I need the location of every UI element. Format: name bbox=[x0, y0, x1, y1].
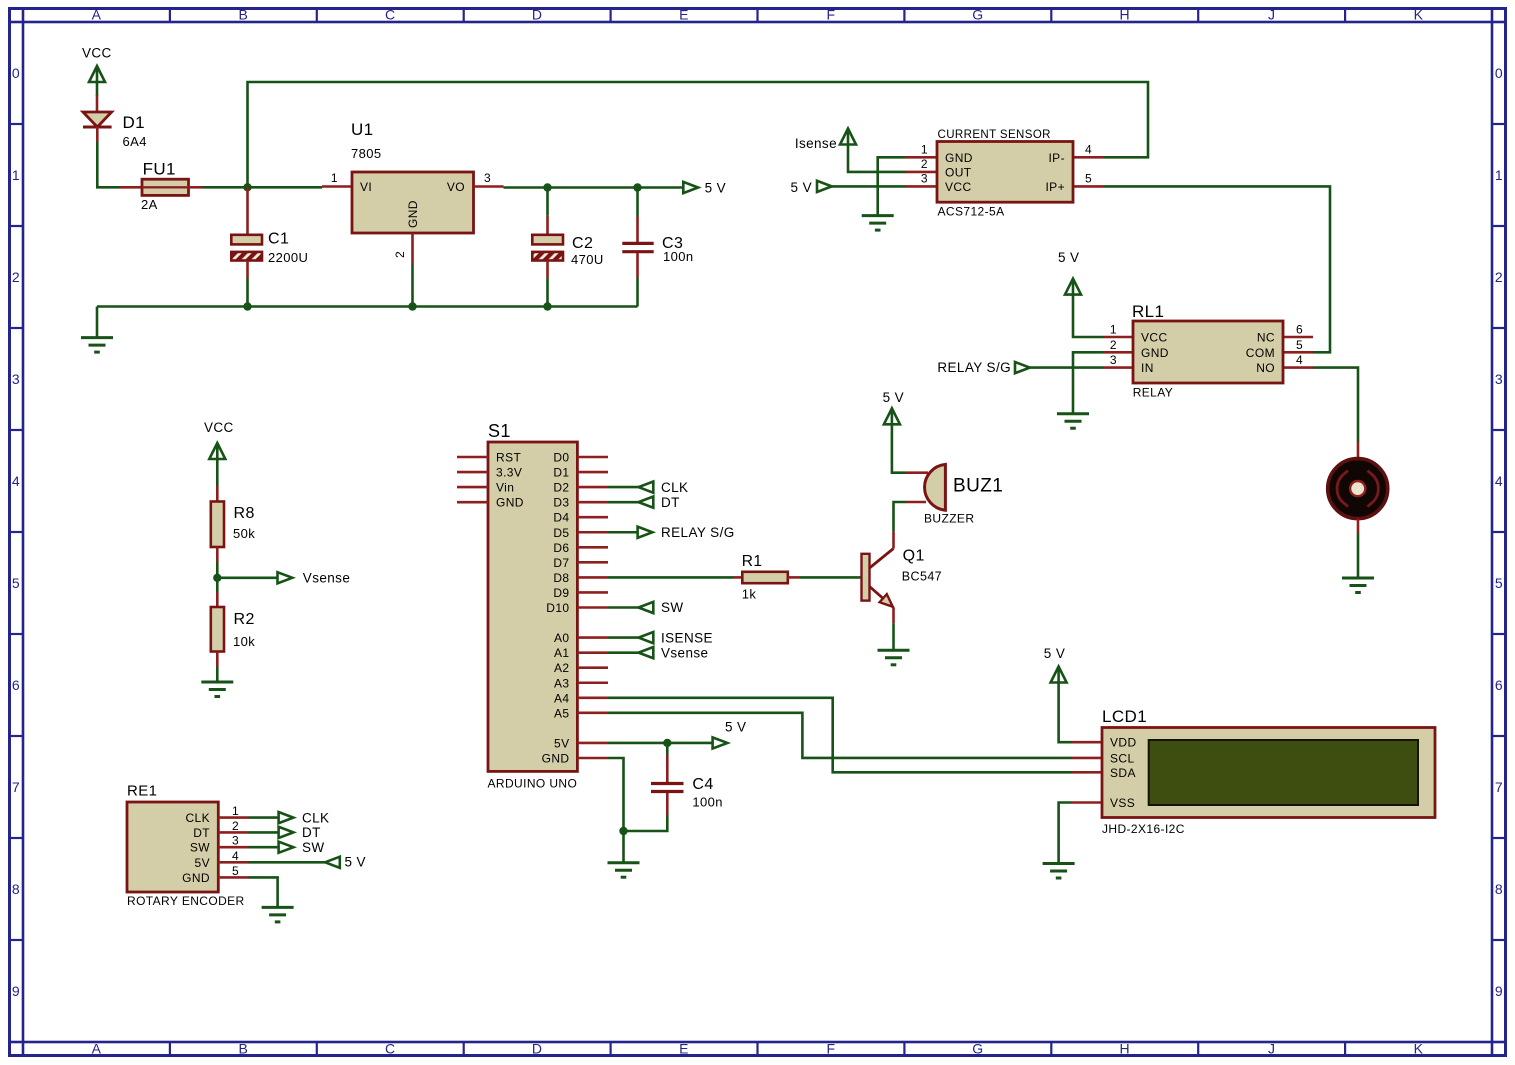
svg-text:5: 5 bbox=[1085, 172, 1092, 186]
current sensor U ACS712 bbox=[906, 156, 937, 159]
wire 5V to buzzer pin1 bbox=[892, 424, 906, 472]
svg-text:D1: D1 bbox=[553, 466, 569, 480]
wire A0 to ISENSE bbox=[608, 636, 639, 639]
svg-text:Vsense: Vsense bbox=[661, 645, 708, 660]
svg-text:5: 5 bbox=[1296, 338, 1303, 352]
wire enc 5V bbox=[249, 861, 326, 864]
svg-text:VI: VI bbox=[360, 180, 372, 194]
resistor R2 bbox=[216, 592, 219, 607]
regulator U1 7805 bbox=[322, 185, 352, 188]
svg-text:R8: R8 bbox=[234, 505, 255, 522]
svg-text:2: 2 bbox=[1110, 338, 1117, 352]
wire IP+ to relay COM bbox=[1104, 186, 1331, 352]
svg-text:E: E bbox=[679, 7, 689, 23]
svg-text:5 V: 5 V bbox=[345, 855, 366, 870]
svg-text:D1: D1 bbox=[123, 113, 146, 132]
svg-text:100n: 100n bbox=[663, 249, 694, 264]
svg-text:6A4: 6A4 bbox=[123, 134, 147, 149]
svg-text:10k: 10k bbox=[233, 634, 255, 649]
relay RL1 bbox=[1103, 336, 1133, 339]
ground symbol (Q1) bbox=[878, 649, 910, 652]
svg-text:5: 5 bbox=[232, 864, 239, 878]
svg-text:D: D bbox=[532, 1041, 543, 1057]
rotary encoder RE1 bbox=[127, 802, 218, 892]
svg-text:VCC: VCC bbox=[945, 180, 972, 194]
svg-text:ARDUINO UNO: ARDUINO UNO bbox=[488, 777, 578, 791]
svg-text:CLK: CLK bbox=[661, 480, 688, 495]
svg-text:NO: NO bbox=[1256, 361, 1275, 375]
svg-text:ISENSE: ISENSE bbox=[661, 630, 713, 645]
terminal Vsense (arduino) bbox=[639, 647, 654, 658]
svg-text:GND: GND bbox=[1141, 346, 1169, 360]
wire A4 to LCD SDA bbox=[608, 698, 1072, 773]
wire VCC to R8 bbox=[216, 459, 219, 486]
resistor R8 bbox=[211, 502, 224, 548]
svg-text:IP-: IP- bbox=[1048, 151, 1065, 165]
svg-text:3: 3 bbox=[232, 834, 239, 848]
terminal RELAY S/G (arduino) bbox=[638, 527, 653, 538]
wire enc DT bbox=[249, 831, 279, 834]
svg-text:D8: D8 bbox=[553, 571, 569, 585]
svg-text:D5: D5 bbox=[553, 526, 569, 540]
svg-text:VDD: VDD bbox=[1110, 736, 1137, 750]
svg-text:C: C bbox=[385, 1041, 396, 1057]
svg-text:CLK: CLK bbox=[302, 810, 329, 825]
svg-text:3: 3 bbox=[921, 172, 928, 186]
svg-text:5: 5 bbox=[1495, 575, 1503, 591]
wire node to Vsense terminal bbox=[217, 576, 277, 579]
capacitor C3 bbox=[636, 188, 639, 217]
svg-text:3: 3 bbox=[1495, 371, 1503, 387]
svg-text:9: 9 bbox=[1495, 983, 1503, 999]
svg-text:A3: A3 bbox=[554, 676, 569, 690]
svg-text:A0: A0 bbox=[554, 631, 569, 645]
terminal SW (arduino) bbox=[639, 602, 654, 613]
ground symbol (LCD) bbox=[1043, 862, 1075, 865]
svg-text:RELAY S/G: RELAY S/G bbox=[661, 525, 735, 540]
terminal Vsense (divider) bbox=[278, 572, 293, 583]
wire Q1 emitter to ground bbox=[892, 623, 895, 650]
svg-text:D9: D9 bbox=[553, 586, 569, 600]
svg-text:F: F bbox=[826, 1041, 835, 1057]
svg-text:GND: GND bbox=[542, 752, 570, 766]
svg-text:2: 2 bbox=[393, 251, 407, 258]
ground rail bottom left bbox=[97, 305, 638, 308]
junction 5V/C4 bbox=[663, 739, 671, 747]
svg-text:D6: D6 bbox=[553, 541, 569, 555]
svg-text:1: 1 bbox=[331, 171, 338, 185]
svg-text:5 V: 5 V bbox=[1044, 646, 1065, 661]
svg-text:C2: C2 bbox=[572, 235, 593, 252]
wire LCD VSS to ground bbox=[1059, 803, 1072, 864]
svg-text:R2: R2 bbox=[234, 611, 255, 628]
svg-text:2: 2 bbox=[232, 819, 239, 833]
svg-text:VO: VO bbox=[447, 180, 465, 194]
svg-text:1: 1 bbox=[1495, 167, 1503, 183]
svg-text:DT: DT bbox=[193, 826, 210, 840]
terminal CLK (encoder) bbox=[279, 812, 294, 823]
junction Vsense node bbox=[213, 574, 221, 582]
svg-text:JHD-2X16-I2C: JHD-2X16-I2C bbox=[1102, 822, 1185, 836]
ground symbol bottom left bbox=[96, 307, 99, 338]
svg-text:GND: GND bbox=[182, 871, 210, 885]
wire relay GND to ground bbox=[1073, 352, 1103, 413]
svg-text:1: 1 bbox=[921, 143, 928, 157]
svg-text:C1: C1 bbox=[268, 231, 289, 248]
svg-text:ACS712-5A: ACS712-5A bbox=[938, 205, 1005, 219]
svg-text:C: C bbox=[385, 7, 396, 23]
svg-text:COM: COM bbox=[1246, 346, 1275, 360]
svg-text:Vsense: Vsense bbox=[303, 571, 350, 586]
svg-text:DT: DT bbox=[661, 495, 680, 510]
power terminal VCC (top left) bbox=[89, 66, 105, 82]
svg-text:H: H bbox=[1119, 1041, 1130, 1057]
svg-text:CLK: CLK bbox=[185, 811, 210, 825]
wire enc CLK bbox=[249, 816, 279, 819]
svg-text:5V: 5V bbox=[195, 856, 210, 870]
ground symbol (sensor) bbox=[862, 214, 894, 217]
terminal CLK (arduino) bbox=[639, 482, 654, 493]
wire 5V to LCD VDD bbox=[1059, 683, 1072, 743]
svg-text:4: 4 bbox=[1296, 353, 1303, 367]
svg-text:2: 2 bbox=[921, 157, 928, 171]
wire D8 to R1 bbox=[608, 576, 734, 579]
svg-text:5: 5 bbox=[12, 575, 20, 591]
wire VCC to D1 bbox=[96, 82, 99, 96]
svg-text:7: 7 bbox=[1495, 779, 1503, 795]
wire 5V to relay VCC bbox=[1073, 295, 1103, 337]
transistor Q1 BC547 bbox=[862, 554, 870, 601]
svg-text:GND: GND bbox=[406, 200, 420, 228]
capacitor C4 bbox=[666, 743, 669, 755]
junction C2 top bbox=[543, 183, 551, 191]
svg-text:1: 1 bbox=[232, 804, 239, 818]
svg-text:CURRENT SENSOR: CURRENT SENSOR bbox=[938, 129, 1051, 141]
wire A5 to LCD SCL bbox=[608, 713, 1072, 758]
wire D3 to DT bbox=[608, 501, 639, 504]
svg-text:K: K bbox=[1414, 1041, 1424, 1057]
junction C2 bottom bbox=[543, 302, 551, 310]
svg-text:1: 1 bbox=[12, 167, 20, 183]
svg-text:DT: DT bbox=[302, 825, 321, 840]
wire Isense to OUT pin bbox=[848, 145, 878, 172]
svg-text:6: 6 bbox=[1495, 677, 1503, 693]
svg-text:D4: D4 bbox=[553, 511, 569, 525]
svg-text:C4: C4 bbox=[692, 776, 713, 793]
svg-text:5 V: 5 V bbox=[725, 719, 746, 734]
wire D10 to SW bbox=[608, 606, 639, 609]
power terminal 5V (encoder) bbox=[325, 857, 340, 868]
capacitor C2 bbox=[546, 188, 549, 216]
wire terminal to relay IN bbox=[1030, 366, 1103, 369]
svg-text:BC547: BC547 bbox=[902, 570, 942, 584]
wire motor to ground bbox=[1357, 533, 1360, 578]
svg-text:RELAY: RELAY bbox=[1133, 385, 1173, 399]
node junction at FU1 output bbox=[243, 183, 251, 191]
wire U1 out to 5V terminal bbox=[504, 186, 684, 189]
svg-text:4: 4 bbox=[232, 849, 239, 863]
svg-text:Isense: Isense bbox=[795, 136, 837, 151]
wire enc SW bbox=[249, 846, 279, 849]
svg-text:RE1: RE1 bbox=[127, 783, 157, 800]
svg-text:0: 0 bbox=[1495, 65, 1503, 81]
svg-text:J: J bbox=[1268, 7, 1275, 23]
svg-text:470U: 470U bbox=[571, 252, 604, 267]
svg-text:FU1: FU1 bbox=[143, 160, 176, 179]
svg-text:SW: SW bbox=[190, 841, 210, 855]
terminal ISENSE (arduino) bbox=[639, 632, 654, 643]
svg-text:SW: SW bbox=[661, 600, 684, 615]
svg-text:VCC: VCC bbox=[82, 46, 112, 61]
svg-text:A: A bbox=[92, 7, 102, 23]
svg-text:D0: D0 bbox=[553, 451, 569, 465]
svg-text:2: 2 bbox=[12, 269, 20, 285]
svg-text:U1: U1 bbox=[351, 120, 374, 139]
wire A1 to Vsense bbox=[608, 651, 639, 654]
ground symbol (motor) bbox=[1342, 577, 1374, 580]
svg-text:Q1: Q1 bbox=[903, 548, 925, 565]
arduino uno S1 bbox=[488, 442, 577, 771]
svg-text:SW: SW bbox=[302, 840, 325, 855]
terminal DT (encoder) bbox=[279, 827, 294, 838]
svg-text:8: 8 bbox=[12, 881, 20, 897]
fuse FU1 bbox=[120, 186, 142, 189]
svg-text:SCL: SCL bbox=[1110, 751, 1135, 765]
svg-text:IN: IN bbox=[1141, 361, 1154, 375]
svg-text:GND: GND bbox=[945, 151, 973, 165]
wire arduino GND down bbox=[608, 758, 624, 863]
svg-text:G: G bbox=[972, 1041, 983, 1057]
capacitor C1 bbox=[246, 187, 249, 235]
junction C1 bottom bbox=[243, 302, 251, 310]
wire GND pin to ground bbox=[878, 157, 906, 215]
svg-text:2200U: 2200U bbox=[268, 250, 308, 265]
svg-text:1: 1 bbox=[1110, 323, 1117, 337]
svg-text:4: 4 bbox=[1495, 473, 1503, 489]
svg-text:K: K bbox=[1414, 7, 1424, 23]
junction U1 gnd bottom bbox=[408, 302, 416, 310]
svg-text:A5: A5 bbox=[554, 706, 569, 720]
svg-text:BUZZER: BUZZER bbox=[924, 512, 974, 526]
svg-text:G: G bbox=[972, 7, 983, 23]
svg-text:VCC: VCC bbox=[1141, 331, 1168, 345]
wire D5 to RELAY S/G bbox=[608, 531, 638, 534]
svg-text:A4: A4 bbox=[554, 691, 569, 705]
svg-text:A: A bbox=[92, 1041, 102, 1057]
svg-text:8: 8 bbox=[1495, 881, 1503, 897]
wire R8 to node Vsense bbox=[216, 562, 219, 592]
wire enc GND to ground bbox=[249, 877, 278, 907]
svg-text:IP+: IP+ bbox=[1045, 180, 1065, 194]
svg-text:SDA: SDA bbox=[1110, 766, 1136, 780]
junction GND/C4 bbox=[619, 827, 627, 835]
svg-text:J: J bbox=[1268, 1041, 1275, 1057]
ground symbol (arduino) bbox=[608, 861, 640, 864]
svg-text:6: 6 bbox=[1296, 323, 1303, 337]
svg-text:7: 7 bbox=[12, 779, 20, 795]
wire U1 pin2 to ground rail bbox=[411, 264, 414, 307]
svg-text:3.3V: 3.3V bbox=[496, 466, 522, 480]
svg-text:NC: NC bbox=[1257, 331, 1275, 345]
terminal SW (encoder) bbox=[279, 842, 294, 853]
wire 5V to VCC pin bbox=[832, 185, 906, 188]
svg-text:LCD1: LCD1 bbox=[1102, 707, 1147, 726]
svg-text:5 V: 5 V bbox=[705, 181, 726, 196]
svg-text:5 V: 5 V bbox=[1058, 250, 1079, 265]
wire FU1 to node B bbox=[203, 186, 323, 189]
wire buzzer pin2 to Q1 collector bbox=[894, 502, 907, 532]
svg-text:100n: 100n bbox=[692, 795, 723, 810]
svg-text:GND: GND bbox=[496, 496, 524, 510]
svg-text:5 V: 5 V bbox=[883, 390, 904, 405]
svg-text:4: 4 bbox=[1085, 143, 1092, 157]
svg-text:H: H bbox=[1119, 7, 1130, 23]
svg-text:0: 0 bbox=[12, 65, 20, 81]
wire node up to top rail bbox=[248, 82, 1149, 187]
svg-text:B: B bbox=[238, 1041, 248, 1057]
svg-text:F: F bbox=[826, 7, 835, 23]
svg-text:3: 3 bbox=[12, 371, 20, 387]
svg-text:3: 3 bbox=[1110, 353, 1117, 367]
svg-text:7805: 7805 bbox=[351, 146, 382, 161]
power terminal 5V (reg output) bbox=[683, 182, 698, 193]
svg-text:4: 4 bbox=[12, 473, 20, 489]
wire relay NO to motor bbox=[1313, 368, 1358, 442]
svg-text:D2: D2 bbox=[553, 481, 569, 495]
svg-text:2: 2 bbox=[1495, 269, 1503, 285]
svg-text:R1: R1 bbox=[742, 553, 763, 570]
buzzer BUZ1 bbox=[906, 471, 928, 474]
svg-text:1k: 1k bbox=[742, 587, 757, 602]
wire 5V pin to terminal bbox=[608, 742, 713, 745]
svg-text:RL1: RL1 bbox=[1132, 302, 1164, 321]
svg-text:5V: 5V bbox=[554, 736, 569, 750]
svg-text:6: 6 bbox=[12, 677, 20, 693]
svg-text:RELAY S/G: RELAY S/G bbox=[937, 360, 1011, 375]
svg-text:A2: A2 bbox=[554, 661, 569, 675]
ground symbol (divider) bbox=[201, 681, 233, 684]
ground symbol (encoder) bbox=[262, 906, 294, 909]
terminal DT (arduino) bbox=[639, 497, 654, 508]
svg-text:D10: D10 bbox=[546, 601, 569, 615]
svg-text:3: 3 bbox=[484, 171, 491, 185]
svg-text:VSS: VSS bbox=[1110, 796, 1135, 810]
svg-text:2A: 2A bbox=[141, 197, 158, 212]
motor load bbox=[1357, 442, 1360, 458]
svg-text:S1: S1 bbox=[488, 421, 511, 441]
lcd LCD1 bbox=[1072, 741, 1102, 744]
svg-text:Vin: Vin bbox=[496, 481, 514, 495]
svg-text:BUZ1: BUZ1 bbox=[953, 476, 1003, 497]
ground symbol (relay) bbox=[1057, 412, 1089, 415]
svg-text:D3: D3 bbox=[553, 496, 569, 510]
power terminal 5V (arduino) bbox=[713, 737, 728, 748]
svg-text:9: 9 bbox=[12, 983, 20, 999]
svg-text:50k: 50k bbox=[233, 526, 255, 541]
svg-text:5 V: 5 V bbox=[791, 180, 812, 195]
resistor R1 bbox=[734, 576, 742, 579]
svg-text:B: B bbox=[238, 7, 248, 23]
terminal Isense bbox=[840, 129, 856, 145]
svg-text:VCC: VCC bbox=[204, 420, 234, 435]
wire D1 to FU1 bbox=[97, 142, 120, 187]
diode D1 bbox=[83, 112, 112, 127]
junction C3 top bbox=[633, 183, 641, 191]
svg-text:RST: RST bbox=[496, 451, 521, 465]
wire R2 to ground bbox=[216, 667, 219, 683]
svg-text:OUT: OUT bbox=[945, 166, 972, 180]
wire R1 to Q1 base bbox=[800, 576, 862, 579]
svg-text:D7: D7 bbox=[553, 556, 569, 570]
svg-text:ROTARY ENCODER: ROTARY ENCODER bbox=[127, 894, 245, 908]
svg-text:E: E bbox=[679, 1041, 689, 1057]
svg-text:A1: A1 bbox=[554, 646, 569, 660]
wire D2 to CLK bbox=[608, 486, 639, 489]
svg-text:D: D bbox=[532, 7, 543, 23]
